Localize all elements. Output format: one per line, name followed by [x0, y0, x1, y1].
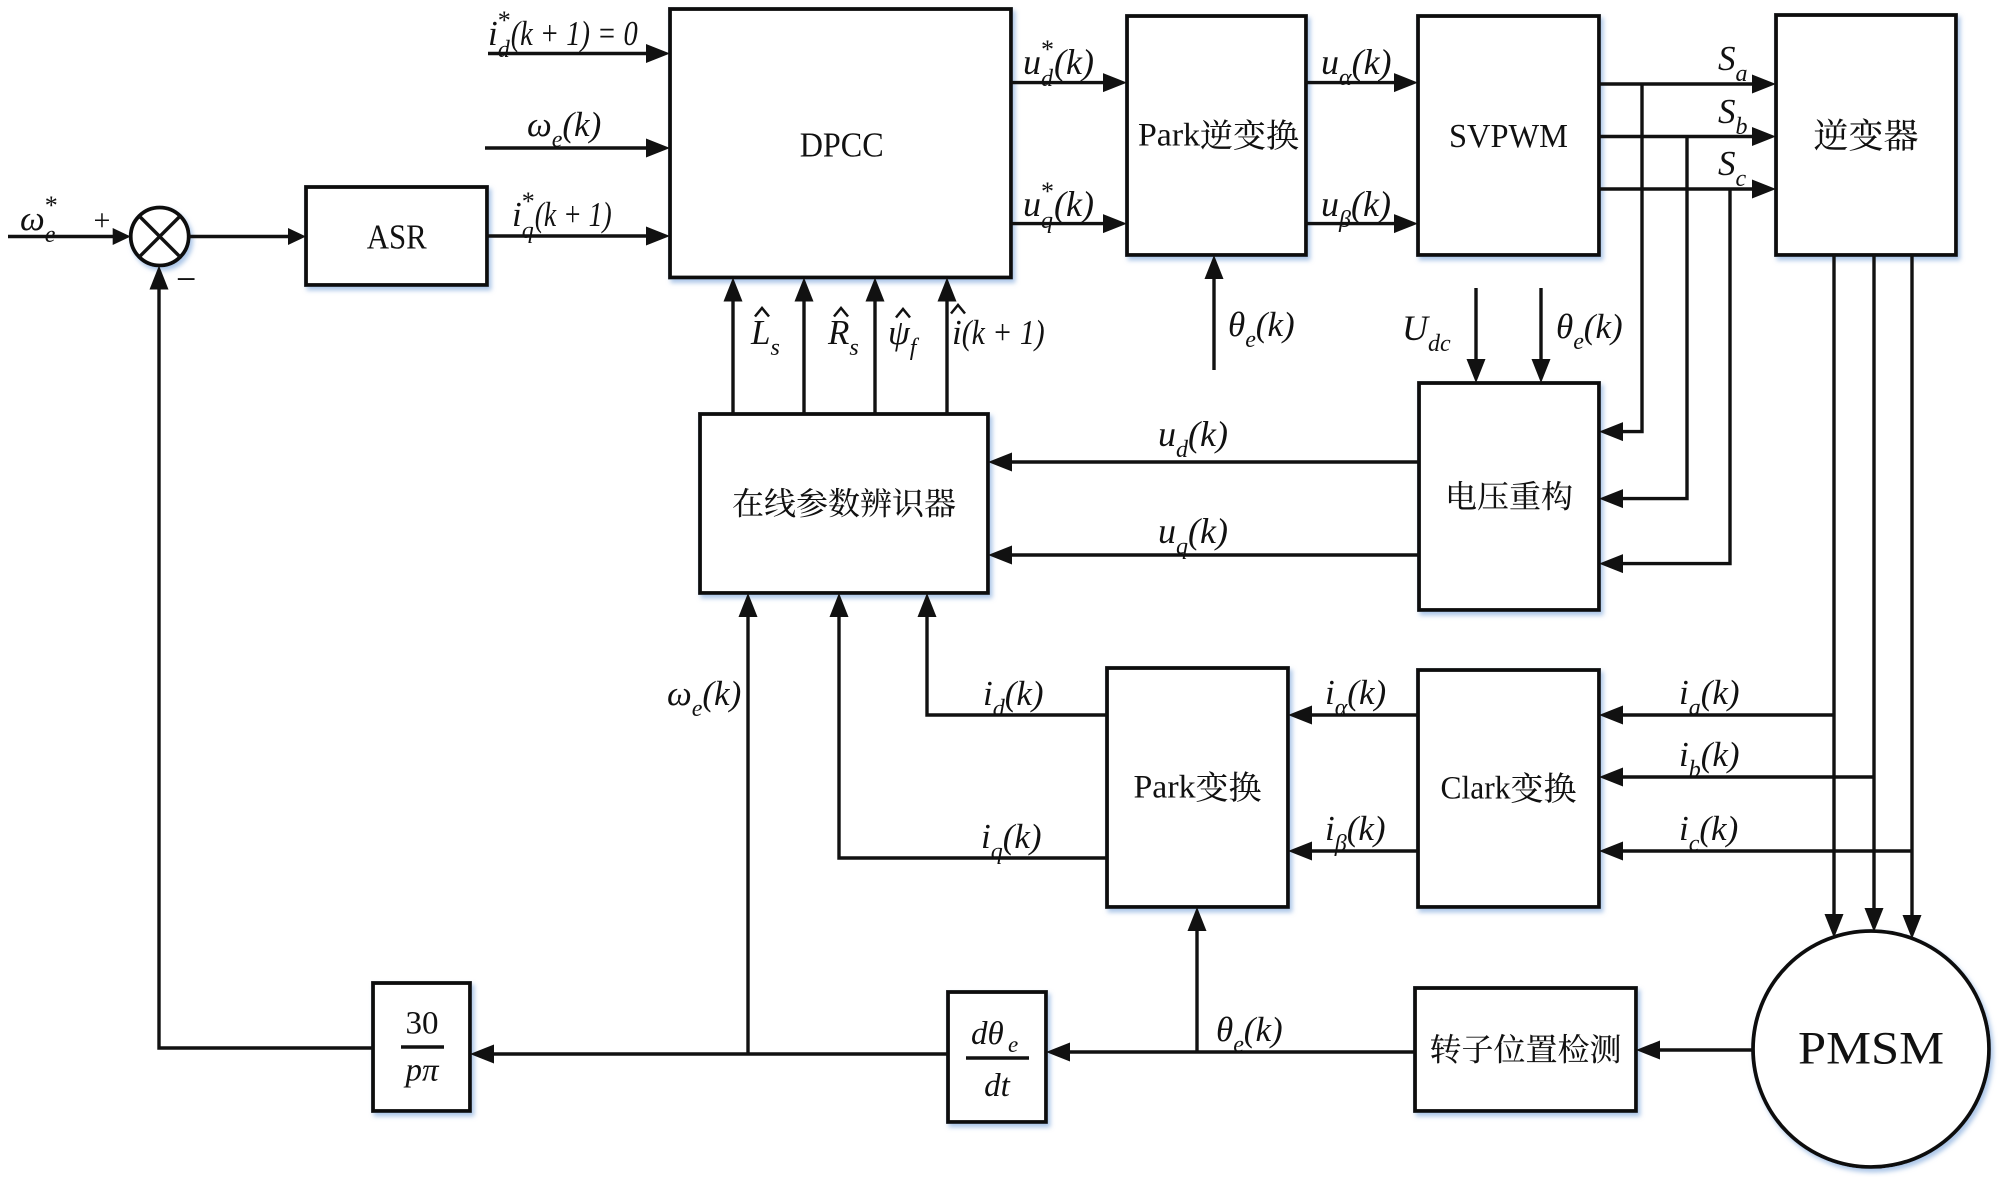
wire theta_e(k) into voltage-reconstruction	[1539, 288, 1542, 361]
wire S_a tap to voltage-reconstruction	[1621, 84, 1642, 432]
svg-text:s: s	[771, 335, 780, 361]
wire i_c(k) to Clark	[1621, 849, 1912, 852]
svg-text:q: q	[991, 839, 1003, 865]
svg-text:i: i	[952, 313, 962, 352]
svg-text:(k): (k)	[1351, 184, 1391, 224]
svg-text:(k): (k)	[1347, 809, 1386, 848]
svg-text:d: d	[498, 37, 511, 63]
svg-text:(k): (k)	[1005, 674, 1044, 713]
block inverter (ni bian qi)	[1776, 15, 1956, 255]
svg-text:Park: Park	[1138, 118, 1201, 154]
svg-text:(k): (k)	[702, 674, 741, 713]
wire summing junction to ASR	[189, 235, 290, 238]
wire ASR to DPCC i_q*(k+1)	[487, 234, 648, 237]
wire Clark to Park i_alpha(k)	[1310, 713, 1418, 716]
svg-text:R: R	[827, 313, 849, 352]
wire i_q(k) Park-transform to identifier	[839, 615, 1107, 858]
wire DPCC to Park-inverse u_d*(k)	[1011, 81, 1105, 84]
svg-text:d: d	[1041, 66, 1054, 92]
wire identifier to DPCC L_s	[731, 300, 734, 415]
svg-text:e: e	[45, 222, 56, 248]
wire Park-inverse to SVPWM u_beta(k)	[1306, 222, 1396, 225]
wire PMSM to rotor-position-detection	[1658, 1048, 1753, 1051]
wire i_d*(k+1)=0 input to DPCC	[488, 52, 648, 55]
svg-text:(k): (k)	[1054, 42, 1094, 82]
svg-text:ASR: ASR	[367, 217, 428, 256]
svg-text:q: q	[1176, 534, 1188, 560]
wire S_c tap to voltage-reconstruction	[1621, 189, 1730, 564]
svg-text:ω: ω	[527, 105, 552, 144]
block SVPWM	[1418, 16, 1599, 255]
svg-text:(k): (k)	[1188, 511, 1228, 551]
svg-text:ω: ω	[20, 199, 45, 238]
svg-text:θ: θ	[1556, 307, 1573, 346]
svg-text:u: u	[1321, 184, 1339, 224]
svg-text:u: u	[1158, 414, 1176, 454]
svg-text:θ: θ	[1216, 1010, 1233, 1049]
svg-text:(k): (k)	[1701, 735, 1740, 774]
svg-text:(k): (k)	[1256, 305, 1295, 344]
block voltage reconstruction	[1419, 383, 1599, 610]
svg-text:i: i	[1679, 673, 1689, 712]
block Clark transform	[1418, 670, 1599, 907]
svg-text:a: a	[1689, 695, 1701, 721]
svg-text:dθ: dθ	[971, 1016, 1004, 1052]
wire i_b(k) to Clark	[1621, 775, 1874, 778]
wire inverter phase b to PMSM	[1872, 255, 1875, 910]
svg-text:(k): (k)	[1701, 673, 1740, 712]
svg-text:Clark: Clark	[1441, 771, 1511, 807]
wire d(theta)/dt to 30/p-pi	[492, 1052, 948, 1055]
svg-text:c: c	[1689, 831, 1700, 857]
block d(theta)/dt differentiator	[948, 992, 1046, 1122]
svg-text:q: q	[1041, 208, 1053, 234]
block DPCC U1	[670, 9, 1011, 278]
block Park inverse transform	[1127, 16, 1306, 255]
svg-text:b: b	[1736, 114, 1748, 140]
svg-text:ω: ω	[667, 674, 692, 713]
wire omega_e* reference input	[8, 235, 115, 238]
svg-text:i: i	[512, 195, 522, 234]
wire SVPWM to inverter S_c	[1599, 187, 1754, 190]
wire inverter phase a to PMSM	[1832, 255, 1835, 916]
svg-text:+: +	[94, 204, 111, 237]
block rotor position detection	[1415, 988, 1636, 1111]
svg-text:α: α	[1339, 65, 1352, 91]
svg-text:(k): (k)	[1584, 307, 1623, 346]
svg-text:U: U	[1402, 308, 1430, 348]
svg-text:i: i	[1679, 735, 1689, 774]
svg-text:i: i	[981, 817, 991, 856]
svg-text:β: β	[1338, 207, 1351, 233]
svg-text:i: i	[488, 14, 498, 53]
block Park transform	[1107, 668, 1288, 907]
wire u_d(k) voltage-reconstruction to identifier	[1010, 460, 1419, 463]
svg-text:ψ: ψ	[888, 313, 911, 352]
block online parameter identifier	[700, 414, 988, 593]
wire 30/p-pi to summing junction	[159, 288, 373, 1049]
wire Clark to Park i_beta(k)	[1310, 849, 1418, 852]
wire omega_e(k) up into identifier	[746, 615, 749, 1054]
block ASR	[306, 187, 487, 285]
svg-text:e: e	[692, 696, 703, 722]
svg-text:pπ: pπ	[403, 1053, 440, 1089]
svg-text:*: *	[45, 191, 58, 220]
wire theta_e(k) up into Park-transform	[1195, 929, 1198, 1052]
wire SVPWM to inverter S_b	[1599, 135, 1754, 138]
svg-text:DPCC: DPCC	[800, 125, 884, 164]
svg-text:(k): (k)	[1244, 1010, 1283, 1049]
svg-text:dt: dt	[984, 1068, 1011, 1104]
svg-text:i: i	[983, 674, 993, 713]
svg-text:(k): (k)	[1054, 184, 1094, 224]
svg-text:c: c	[1736, 166, 1747, 192]
wire identifier to DPCC psi_f	[873, 300, 876, 415]
wire U_dc into voltage-reconstruction	[1474, 288, 1477, 361]
svg-text:u: u	[1023, 42, 1041, 82]
svg-text:b: b	[1689, 757, 1701, 783]
svg-text:L: L	[750, 313, 770, 352]
svg-text:e: e	[1573, 329, 1584, 355]
svg-text:i: i	[1325, 809, 1335, 848]
svg-text:(k): (k)	[1352, 42, 1392, 82]
svg-text:α: α	[1335, 695, 1348, 721]
svg-text:u: u	[1023, 184, 1041, 224]
svg-text:β: β	[1334, 831, 1347, 857]
svg-text:S: S	[1718, 39, 1736, 78]
svg-text:*: *	[1041, 177, 1054, 206]
wire DPCC to Park-inverse u_q*(k)	[1011, 222, 1105, 225]
svg-text:PMSM: PMSM	[1798, 1023, 1944, 1075]
svg-text:(k): (k)	[1188, 414, 1228, 454]
svg-text:q: q	[522, 218, 534, 244]
wire omega_e(k) input to DPCC	[485, 146, 648, 149]
motor PMSM	[1753, 931, 1989, 1167]
wire u_q(k) voltage-reconstruction to identifier	[1010, 553, 1419, 556]
wire identifier to DPCC i(k+1)	[945, 300, 948, 415]
wire theta_e(k) into Park-inverse bottom	[1212, 277, 1215, 370]
svg-text:(k + 1): (k + 1)	[535, 195, 612, 234]
svg-text:*: *	[522, 187, 535, 216]
wire rotor-position-detection to d(theta)/dt	[1068, 1050, 1415, 1053]
summing junction	[131, 208, 189, 266]
svg-text:(k): (k)	[562, 105, 601, 144]
svg-text:(k + 1): (k + 1)	[962, 313, 1045, 352]
svg-text:−: −	[176, 259, 196, 299]
svg-text:s: s	[849, 335, 858, 361]
svg-text:e: e	[1233, 1032, 1244, 1058]
svg-text:(k): (k)	[1347, 673, 1386, 712]
svg-text:e: e	[1245, 327, 1256, 353]
svg-text:a: a	[1736, 61, 1748, 87]
svg-text:*: *	[498, 6, 511, 35]
wire identifier to DPCC R_s	[802, 300, 805, 415]
svg-text:(k + 1) = 0: (k + 1) = 0	[511, 14, 638, 53]
svg-text:SVPWM: SVPWM	[1449, 118, 1568, 155]
wire SVPWM to inverter S_a	[1599, 82, 1754, 85]
wire i_d(k) Park-transform to identifier	[927, 615, 1107, 715]
svg-text:e: e	[552, 127, 563, 153]
block 30/p-pi gain	[373, 983, 470, 1111]
svg-text:θ: θ	[1228, 305, 1245, 344]
wire i_a(k) to Clark	[1621, 713, 1834, 716]
svg-text:S: S	[1718, 144, 1736, 183]
wire Park-inverse to SVPWM u_alpha(k)	[1306, 81, 1396, 84]
svg-text:e: e	[1008, 1032, 1018, 1057]
svg-text:30: 30	[406, 1006, 439, 1042]
wire S_b tap to voltage-reconstruction	[1621, 137, 1687, 499]
svg-text:(k): (k)	[1003, 817, 1042, 856]
svg-text:u: u	[1158, 511, 1176, 551]
svg-text:dc: dc	[1428, 331, 1451, 357]
svg-text:i: i	[1679, 809, 1689, 848]
svg-text:u: u	[1321, 42, 1339, 82]
svg-text:S: S	[1718, 92, 1736, 131]
svg-text:*: *	[1041, 35, 1054, 64]
svg-text:Park: Park	[1134, 770, 1197, 806]
svg-text:(k): (k)	[1699, 809, 1738, 848]
wire inverter phase c to PMSM	[1910, 255, 1913, 917]
svg-text:i: i	[1325, 673, 1335, 712]
